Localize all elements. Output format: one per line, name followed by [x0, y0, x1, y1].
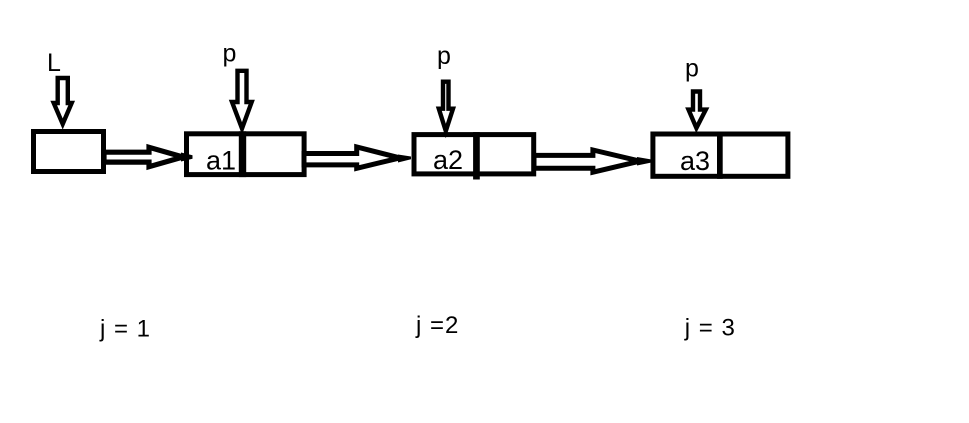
- arrow p down to a1: [232, 71, 252, 129]
- svg-text:p: p: [685, 55, 699, 83]
- arrow p down to a3: [689, 92, 706, 129]
- svg-text:j =2: j =2: [415, 312, 459, 339]
- svg-text:j = 1: j = 1: [99, 316, 151, 343]
- node a1 box: [187, 134, 305, 175]
- node a2 box: [414, 135, 534, 174]
- svg-text:a1: a1: [206, 146, 236, 176]
- wire arrow a2 to a3 tip: [637, 157, 652, 166]
- wire arrow a1 to a2: [304, 147, 400, 168]
- svg-text:p: p: [223, 40, 237, 68]
- node a3 divider: [717, 132, 723, 179]
- svg-text:a2: a2: [433, 145, 463, 175]
- wire arrow a1 to a2 tip: [398, 155, 411, 163]
- arrow p down to a2: [439, 82, 453, 131]
- wire arrow L to a1 tip: [181, 153, 193, 162]
- node a2 divider: [473, 132, 480, 179]
- head pointer box L: [34, 132, 104, 172]
- wire arrow L to a1: [104, 147, 183, 166]
- wire arrow a2 to a3: [534, 150, 640, 172]
- node a1 divider: [239, 131, 246, 177]
- svg-text:a3: a3: [680, 146, 710, 176]
- svg-text:j = 3: j = 3: [684, 315, 736, 342]
- svg-text:L: L: [47, 49, 61, 77]
- arrow L down: [54, 78, 72, 124]
- svg-text:p: p: [437, 42, 451, 70]
- node a3 box: [653, 134, 788, 176]
